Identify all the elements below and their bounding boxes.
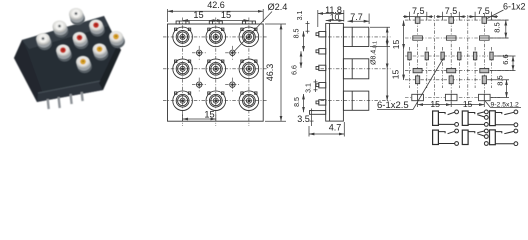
rear centerline grid dashed xyxy=(405,13,512,103)
top mounting tabs xyxy=(176,21,189,24)
switch r2 s2 xyxy=(462,129,488,145)
row E pins xyxy=(416,76,487,84)
dim 10 xyxy=(326,20,344,22)
dim 8.5 upper xyxy=(303,31,305,51)
switch schematics xyxy=(433,110,518,146)
dim 8.5 right upper xyxy=(488,19,509,21)
jack R3 xyxy=(56,44,72,61)
row D pins xyxy=(413,68,489,72)
jack Y3 xyxy=(76,56,92,73)
column centerlines (dashed) xyxy=(163,18,268,127)
block top face strip xyxy=(22,16,109,49)
dim 15 15 barrel pitch xyxy=(386,37,388,69)
svg-text:Ø8.4-0.1: Ø8.4-0.1 xyxy=(371,41,379,65)
svg-text:15: 15 xyxy=(430,99,440,109)
svg-text:7.7: 7.7 xyxy=(350,12,363,22)
front view body xyxy=(168,24,264,121)
jack Y2 xyxy=(93,43,109,60)
jack front r2c1 xyxy=(173,59,193,79)
dim 7.5 col1 xyxy=(409,12,411,21)
svg-text:3.1: 3.1 xyxy=(297,11,304,21)
side pin 2 xyxy=(316,49,326,54)
dim 15 top pitch xyxy=(183,20,249,22)
dim 11.8 xyxy=(317,10,319,27)
switch r1 s1 xyxy=(433,110,459,126)
row C pins (6) xyxy=(408,52,493,60)
dim 7.5 col2 xyxy=(442,12,444,21)
jack W3 xyxy=(36,33,52,50)
jack front r3c3 xyxy=(239,91,259,111)
row F pins xyxy=(412,94,490,100)
svg-text:42.6: 42.6 xyxy=(207,0,225,10)
dim 42.6 xyxy=(167,9,169,22)
side pin 5 xyxy=(316,100,326,105)
jack front r2c3 xyxy=(239,59,259,79)
jack front r1c2 xyxy=(206,27,226,47)
block right edge shade xyxy=(99,48,121,90)
block body silhouette xyxy=(14,16,121,102)
small hole centerlines xyxy=(198,46,200,60)
pcb pins under block xyxy=(46,92,83,109)
switch r1 s3 xyxy=(490,110,518,127)
block left side face xyxy=(14,40,44,102)
svg-text:15: 15 xyxy=(193,10,203,20)
svg-text:3.1: 3.1 xyxy=(306,83,313,93)
svg-text:6.6: 6.6 xyxy=(292,65,299,75)
side view xyxy=(310,23,391,121)
svg-text:6.6: 6.6 xyxy=(501,54,510,64)
switch r2 s1 xyxy=(433,129,459,145)
svg-text:15: 15 xyxy=(221,10,231,20)
dim 3.5 xyxy=(311,109,313,127)
small hole 2 xyxy=(230,50,235,55)
dim 15 bottom xyxy=(182,114,184,122)
row centerlines xyxy=(163,36,268,38)
rear view xyxy=(405,13,512,103)
photo jacks 3x3 xyxy=(36,8,125,73)
barrel 3 xyxy=(343,91,368,110)
jack front r2c2 xyxy=(206,59,226,79)
svg-text:8.5: 8.5 xyxy=(493,22,502,32)
dim Ø8.4-0.1 xyxy=(370,26,390,28)
switch r2 s3 xyxy=(490,129,518,146)
dim 7.5 col3 xyxy=(474,12,476,21)
row A pins xyxy=(415,17,420,23)
jack Y1 xyxy=(109,31,125,48)
photo: 3x3 RCA jack block xyxy=(14,16,121,109)
small hole 4 xyxy=(230,82,235,87)
dim 3.1 upper xyxy=(307,21,309,34)
side pin 4 xyxy=(316,83,326,88)
barrel 1 xyxy=(343,27,368,46)
dim 46.3 xyxy=(265,23,286,25)
svg-text:3.5: 3.5 xyxy=(297,114,310,124)
side pin 3 xyxy=(316,65,326,70)
jack front r3c2 xyxy=(206,91,226,111)
svg-text:8.5: 8.5 xyxy=(294,29,301,39)
dim 3.1 lower xyxy=(315,80,317,93)
small hole 3 xyxy=(197,82,202,87)
front view dimensions xyxy=(168,0,288,121)
svg-text:7.5: 7.5 xyxy=(477,6,490,16)
side view dimensions xyxy=(292,5,402,137)
jack R1 xyxy=(89,19,105,36)
dim 4.7 xyxy=(309,133,344,135)
dim 15 15 bottom xyxy=(417,102,419,108)
jack bayonet ears xyxy=(175,28,258,94)
jack R2 xyxy=(73,32,89,49)
svg-text:7.5: 7.5 xyxy=(445,6,458,16)
svg-text:15: 15 xyxy=(204,110,214,120)
svg-text:8.5: 8.5 xyxy=(496,75,505,85)
dim 8.5 lower xyxy=(303,94,305,112)
svg-text:4.7: 4.7 xyxy=(329,123,342,133)
jack W2 xyxy=(53,20,69,37)
switch r1 s2 xyxy=(462,110,488,126)
dim Ø2.4 leader xyxy=(234,12,272,52)
svg-text:8.5: 8.5 xyxy=(294,97,301,107)
barrel centerlines xyxy=(321,37,391,101)
block bottom band highlight edge xyxy=(38,81,100,93)
svg-text:15: 15 xyxy=(391,70,401,80)
side pin 1 xyxy=(316,32,326,37)
dim 7.7 xyxy=(348,20,370,22)
jack front r1c1 xyxy=(173,27,193,47)
svg-text:6-1x2: 6-1x2 xyxy=(503,2,526,12)
svg-text:46.3: 46.3 xyxy=(265,64,275,82)
block bottom side band xyxy=(37,81,103,102)
side bottom pin xyxy=(310,111,326,115)
svg-text:15: 15 xyxy=(391,40,401,50)
dim 6.6 xyxy=(300,51,302,68)
jack front r3c1 xyxy=(173,91,193,111)
small hole 1 xyxy=(197,50,202,55)
rear view dimensions xyxy=(377,2,526,112)
jack W1 xyxy=(69,8,85,25)
svg-text:10: 10 xyxy=(330,12,340,22)
svg-text:Ø2.4: Ø2.4 xyxy=(268,2,288,12)
barrel 2 xyxy=(343,59,368,79)
dim 15 15 left xyxy=(403,21,405,50)
dim 8.5 right lower xyxy=(488,79,509,81)
dim 6.6 right xyxy=(494,55,516,57)
svg-text:15: 15 xyxy=(463,99,473,109)
jack front r1c3 xyxy=(239,27,259,47)
svg-text:7.5: 7.5 xyxy=(412,6,425,16)
side view body xyxy=(326,23,344,121)
row B pins xyxy=(413,36,489,40)
front view xyxy=(163,18,268,127)
